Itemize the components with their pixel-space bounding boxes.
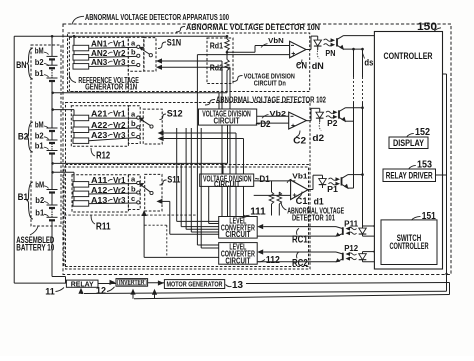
svg-text:Rd2: Rd2	[210, 62, 224, 72]
svg-text:153: 153	[417, 159, 432, 170]
svg-text:P1: P1	[327, 185, 338, 194]
svg-text:Rd1: Rd1	[210, 41, 224, 51]
svg-text:Vr2: Vr2	[113, 49, 126, 58]
svg-text:112: 112	[266, 255, 280, 266]
svg-text:CIRCUIT: CIRCUIT	[214, 116, 240, 125]
svg-text:RC2: RC2	[292, 258, 308, 269]
svg-text:Vr3: Vr3	[113, 196, 126, 205]
svg-text:S1N: S1N	[167, 38, 182, 49]
svg-text:Vr3: Vr3	[113, 58, 126, 67]
svg-text:VbN: VbN	[268, 36, 284, 45]
svg-text:ABNORMAL VOLTAGE DETECTOR 10N: ABNORMAL VOLTAGE DETECTOR 10N	[186, 23, 320, 32]
svg-text:d2: d2	[312, 133, 324, 143]
svg-text:GENERATOR R1N: GENERATOR R1N	[85, 83, 137, 92]
svg-text:+: +	[291, 51, 295, 58]
svg-text:ds: ds	[364, 57, 373, 67]
svg-text:MOTOR GENERATOR: MOTOR GENERATOR	[167, 280, 223, 289]
svg-text:ABNORMAL VOLTAGE DETECTOR APPA: ABNORMAL VOLTAGE DETECTOR APPARATUS 100	[85, 13, 229, 22]
svg-text:b2: b2	[35, 196, 44, 205]
svg-text:B2: B2	[18, 131, 28, 141]
svg-text:RELAY DRIVER: RELAY DRIVER	[386, 171, 433, 181]
svg-text:A23: A23	[91, 131, 108, 140]
svg-text:Vr1: Vr1	[113, 109, 126, 118]
svg-text:PN: PN	[325, 49, 335, 58]
svg-text:B1: B1	[18, 192, 28, 202]
svg-text:b2: b2	[35, 131, 44, 140]
svg-text:c: c	[131, 129, 135, 138]
svg-text:AN1: AN1	[91, 39, 108, 48]
svg-text:R11: R11	[96, 222, 111, 233]
svg-text:12: 12	[96, 286, 106, 296]
svg-text:DETECTOR 101: DETECTOR 101	[292, 214, 335, 223]
svg-text:151: 151	[422, 211, 436, 222]
svg-text:c: c	[131, 57, 135, 66]
svg-text:CONTROLLER: CONTROLLER	[384, 51, 433, 61]
svg-text:bM: bM	[35, 180, 44, 189]
svg-text:C2: C2	[293, 136, 306, 146]
svg-text:111: 111	[250, 206, 266, 217]
svg-text:A12: A12	[91, 186, 108, 195]
svg-text:c: c	[131, 194, 135, 203]
svg-text:C1: C1	[296, 196, 308, 206]
svg-text:b1: b1	[35, 69, 44, 78]
svg-text:~D1: ~D1	[255, 174, 270, 184]
svg-text:P2: P2	[327, 119, 338, 128]
svg-text:R12: R12	[96, 150, 110, 161]
svg-text:13: 13	[232, 280, 243, 291]
svg-text:Vr2: Vr2	[113, 186, 126, 195]
svg-text:AN2: AN2	[91, 49, 108, 58]
svg-text:b: b	[131, 119, 136, 128]
svg-text:P12: P12	[344, 244, 358, 253]
svg-text:dN: dN	[312, 61, 324, 71]
svg-text:BATTERY 10: BATTERY 10	[16, 243, 54, 253]
svg-text:+: +	[291, 123, 295, 130]
svg-text:BN: BN	[16, 60, 26, 70]
svg-text:b: b	[131, 48, 136, 57]
svg-text:S12: S12	[167, 109, 183, 120]
svg-text:INVERTER: INVERTER	[119, 280, 145, 287]
svg-text:b1: b1	[35, 142, 44, 151]
svg-text:CIRCUIT: CIRCUIT	[225, 230, 250, 239]
svg-text:AN3: AN3	[91, 58, 108, 67]
svg-text:S11: S11	[167, 175, 181, 186]
svg-text:Vb1: Vb1	[292, 172, 307, 181]
svg-text:CIRCUIT: CIRCUIT	[214, 180, 240, 189]
svg-text:CIRCUIT: CIRCUIT	[225, 256, 250, 265]
svg-text:~D2: ~D2	[256, 119, 271, 129]
svg-text:b: b	[131, 184, 136, 193]
svg-text:11: 11	[45, 286, 55, 296]
svg-text:bM: bM	[35, 47, 44, 56]
svg-text:Vr2: Vr2	[113, 121, 126, 130]
svg-text:bM: bM	[35, 121, 44, 130]
svg-text:P11: P11	[344, 219, 358, 228]
svg-text:A22: A22	[91, 121, 108, 130]
svg-text:A11: A11	[91, 176, 108, 185]
svg-text:b1: b1	[35, 209, 44, 218]
svg-text:CIRCUIT Dn: CIRCUIT Dn	[254, 78, 286, 87]
svg-text:b2: b2	[35, 58, 44, 67]
svg-text:Vb2: Vb2	[270, 109, 287, 118]
svg-text:Vr3: Vr3	[113, 131, 126, 140]
svg-text:Vr1: Vr1	[113, 176, 126, 185]
svg-text:CONTROLLER: CONTROLLER	[390, 241, 429, 251]
svg-text:A13: A13	[91, 196, 108, 205]
svg-text:A21: A21	[91, 109, 108, 118]
svg-text:152: 152	[415, 127, 430, 138]
svg-text:RELAY: RELAY	[71, 279, 94, 288]
svg-text:ABNORMAL VOLTAGE DETECTOR 102: ABNORMAL VOLTAGE DETECTOR 102	[216, 95, 326, 104]
svg-text:Vr1: Vr1	[113, 39, 126, 48]
svg-text:d1: d1	[314, 197, 324, 207]
svg-text:DISPLAY: DISPLAY	[393, 138, 424, 148]
